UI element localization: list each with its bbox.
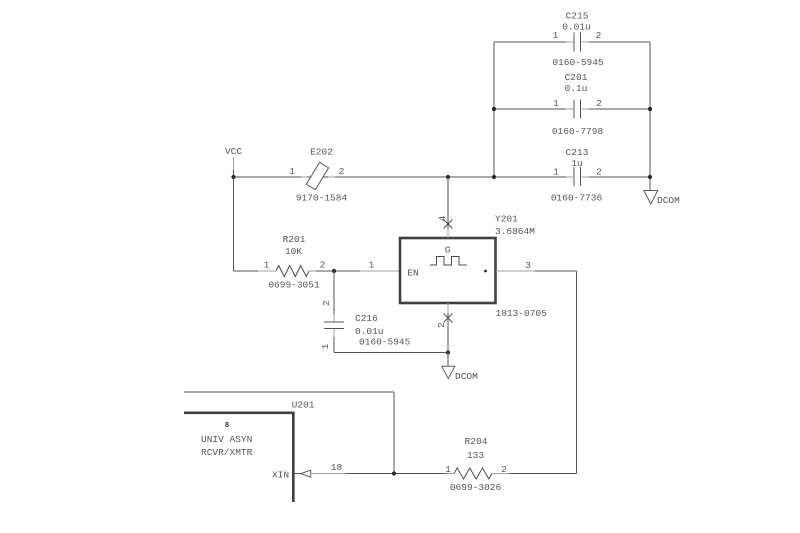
svg-text:2: 2	[339, 166, 345, 177]
svg-text:2: 2	[321, 300, 332, 306]
svg-text:3: 3	[525, 260, 531, 271]
svg-text:0160-5945: 0160-5945	[552, 57, 604, 68]
svg-text:1: 1	[553, 98, 559, 109]
svg-text:U201: U201	[292, 400, 315, 411]
svg-text:1: 1	[320, 343, 331, 349]
svg-text:2: 2	[320, 260, 326, 271]
svg-text:1: 1	[553, 30, 559, 41]
svg-text:0.01u: 0.01u	[355, 326, 384, 337]
svg-text:1813-0705: 1813-0705	[496, 308, 548, 319]
svg-text:2: 2	[436, 322, 447, 328]
svg-text:C215: C215	[566, 11, 589, 22]
svg-text:0160-5945: 0160-5945	[359, 337, 411, 348]
svg-text:1: 1	[369, 260, 375, 271]
svg-text:4: 4	[437, 215, 448, 221]
svg-text:UNIV ASYN: UNIV ASYN	[201, 434, 252, 445]
svg-text:3.6864M: 3.6864M	[495, 226, 535, 237]
svg-text:2: 2	[596, 167, 602, 178]
svg-text:0160-7798: 0160-7798	[552, 126, 604, 137]
svg-text:1u: 1u	[571, 158, 582, 169]
svg-text:C201: C201	[565, 72, 588, 83]
svg-text:C216: C216	[355, 313, 378, 324]
svg-text:10K: 10K	[285, 246, 302, 257]
svg-text:0.1u: 0.1u	[565, 83, 588, 94]
svg-text:VCC: VCC	[225, 146, 242, 157]
svg-text:9170-1584: 9170-1584	[296, 193, 348, 204]
svg-text:EN: EN	[407, 268, 418, 279]
svg-text:Y201: Y201	[495, 214, 518, 225]
svg-text:2: 2	[596, 98, 602, 109]
svg-text:R201: R201	[283, 234, 306, 245]
svg-text:0699-3051: 0699-3051	[268, 280, 320, 291]
svg-text:133: 133	[467, 450, 484, 461]
svg-text:1: 1	[553, 167, 559, 178]
svg-text:RCVR/XMTR: RCVR/XMTR	[201, 447, 253, 458]
svg-text:2: 2	[596, 30, 602, 41]
svg-text:0160-7736: 0160-7736	[551, 193, 603, 204]
svg-text:1: 1	[264, 260, 270, 271]
svg-text:C213: C213	[566, 147, 589, 158]
svg-text:18: 18	[331, 462, 343, 473]
svg-text:R204: R204	[465, 436, 488, 447]
svg-text:DCOM: DCOM	[657, 195, 680, 206]
svg-text:XIN: XIN	[272, 470, 289, 481]
svg-text:0.01u: 0.01u	[562, 22, 591, 33]
svg-text:DCOM: DCOM	[455, 371, 478, 382]
svg-text:G: G	[445, 245, 451, 256]
svg-text:8: 8	[225, 422, 230, 430]
svg-text:1: 1	[289, 166, 295, 177]
svg-text:E202: E202	[310, 147, 333, 158]
svg-text:0699-3026: 0699-3026	[450, 482, 502, 493]
